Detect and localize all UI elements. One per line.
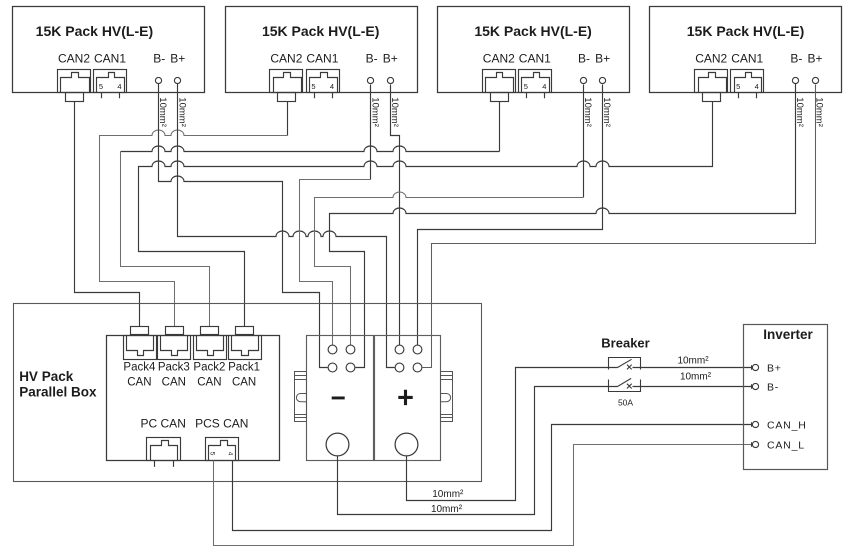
minus sign [332,397,345,400]
HV Pack Parallel Box outer enclosure [14,304,482,482]
svg-text:5: 5 [99,82,103,91]
HV Pack Parallel Box label [19,369,97,400]
minus busbar mounting tab [295,372,307,422]
wire pack3 B+ to plus busbar upper-right terminal [418,85,603,346]
inverter box [744,325,828,470]
svg-text:B-: B- [767,382,779,394]
pack BT4 labels [687,23,823,66]
wire pack3 CAN2 vertical [499,102,501,152]
wire pack2 CAN2 to Pack3 CAN port [100,130,288,327]
wire PCS CAN pin4 to inverter CAN_H [233,425,753,531]
parallel box PCS CAN connector pins 5 4 [206,438,239,461]
svg-text:50A: 50A [618,398,633,408]
svg-text:4: 4 [117,82,121,91]
inverter terminal CAN_L [752,440,805,452]
wire pack1 CAN2 to Pack4 CAN port [75,102,140,327]
wire pack2 B- to minus busbar upper-left terminal [300,180,371,346]
pack BT2 terminal B- [367,77,373,83]
svg-text:CAN1: CAN1 [519,52,551,66]
parallel box Pack4 CAN label [123,361,156,388]
pack BT3 labels [474,23,610,66]
parallel box Pack1 CAN label [228,361,260,388]
svg-text:CAN: CAN [127,377,151,389]
pack BT4 CAN2 connector J4A [695,70,728,102]
inverter terminal CAN_H [752,420,807,432]
minus busbar terminal 2 [346,345,355,354]
wire pack3 CAN2 to Pack2 CAN port [121,152,210,327]
svg-text:10mm²: 10mm² [680,372,712,383]
pack BT2 wire size labels 10mm2 [369,97,399,127]
svg-text:B-: B- [366,52,378,66]
parallel box Pack2 CAN label [193,361,225,388]
wire pack2 CAN2 vertical [287,102,289,136]
parallel box Pack2 CAN connector [194,327,227,360]
svg-text:Pack4: Pack4 [123,361,156,373]
wire pack2 B- vertical [370,85,372,180]
wire pack4 B- to minus busbar lower-right terminal [330,84,796,368]
plus busbar block [375,336,441,461]
svg-text:Breaker: Breaker [601,336,649,351]
minus busbar terminal 4 [346,363,355,372]
wire pack3 CAN2 bus segment [121,146,500,152]
svg-text:15K Pack HV(L-E): 15K Pack HV(L-E) [36,23,153,39]
svg-text:4: 4 [542,82,546,91]
wire pack4 B+ to plus busbar lower-right terminal [423,85,816,368]
battery pack BT2 box [226,7,418,93]
svg-text:CAN1: CAN1 [306,52,338,66]
pack BT3 CAN1 connector J3B pins 5 4 [519,70,552,99]
pack BT3 CAN2 connector J3A [483,70,516,102]
parallel box PC CAN connector [147,438,181,467]
svg-text:CAN1: CAN1 [94,52,126,66]
pack BT1 CAN2 connector J1A [58,70,91,102]
plus busbar terminal 3 [395,363,404,372]
svg-text:4: 4 [755,82,759,91]
pack BT3 terminal B+ [599,77,605,83]
svg-text:Pack3: Pack3 [158,361,190,373]
svg-text:CAN2: CAN2 [270,52,302,66]
svg-text:CAN1: CAN1 [731,52,763,66]
pack BT1 wire size labels 10mm2 [157,97,187,127]
svg-text:B-: B- [578,52,590,66]
svg-text:Inverter: Inverter [763,327,813,342]
minus busbar output stud [326,433,349,456]
svg-text:B+: B+ [170,52,185,66]
wire pack4 CAN2 to Pack1 CAN port [139,102,713,327]
parallel box Pack3 CAN label [158,361,190,388]
svg-text:15K Pack HV(L-E): 15K Pack HV(L-E) [262,23,379,39]
pack BT3 terminal B- [580,77,586,83]
svg-text:B+: B+ [807,52,822,66]
pack BT4 terminal B- [792,77,798,83]
svg-text:CAN2: CAN2 [483,52,515,66]
svg-text:B-: B- [153,52,165,66]
svg-text:CAN2: CAN2 [58,52,90,66]
svg-text:CAN: CAN [162,377,186,389]
pack BT4 CAN1 connector J4B pins 5 4 [731,70,764,99]
pack BT2 CAN2 connector J2A [270,70,303,102]
svg-text:5: 5 [311,82,315,91]
svg-text:PCS CAN: PCS CAN [195,416,248,430]
svg-text:10mm²: 10mm² [677,355,709,366]
svg-text:CAN: CAN [197,377,221,389]
svg-text:B-: B- [790,52,802,66]
parallel box CAN hub module [107,336,280,461]
pack BT1 terminal B+ [174,77,180,83]
parallel box Pack4 CAN connector [124,327,157,360]
breaker Q1 two-pole switch symbol [609,358,641,392]
minus busbar terminal 3 [328,363,337,372]
wire pack1 B+ to plus busbar lower-left terminal [178,84,395,368]
svg-text:5: 5 [524,82,528,91]
wire pack1 B- to minus busbar lower-left terminal [159,84,328,368]
svg-text:4: 4 [227,452,234,456]
pack BT4 terminal B+ [812,77,818,83]
pack BT1 CAN1 connector J1B pins 5 4 [94,70,127,99]
battery pack BT3 box [438,7,630,93]
svg-text:B+: B+ [383,52,398,66]
svg-text:CAN: CAN [232,377,256,389]
svg-text:HV Pack: HV Pack [19,369,74,384]
wire pack3 B- to minus busbar upper-right terminal [315,192,584,346]
plus busbar terminal 2 [413,345,422,354]
battery pack BT1 box [13,7,205,93]
svg-text:CAN_L: CAN_L [767,440,805,452]
wire pack3 B- vertical [583,85,585,198]
plus busbar terminal 4 [413,363,422,372]
wire minus busbar to breaker to inverter B- [338,387,753,515]
wire pack2 B+ to plus busbar upper-left terminal [391,85,400,346]
svg-text:4: 4 [330,82,334,91]
plus sign [398,390,412,405]
wire PCS CAN pin5 to inverter CAN_L [214,445,753,546]
svg-text:15K Pack HV(L-E): 15K Pack HV(L-E) [474,23,591,39]
minus busbar block [307,336,374,461]
parallel box Pack1 CAN connector [229,327,262,360]
battery pack BT4 box [650,7,842,93]
svg-text:Pack2: Pack2 [193,361,225,373]
svg-text:Pack1: Pack1 [228,361,260,373]
svg-text:10mm²: 10mm² [431,504,463,515]
svg-text:PC CAN: PC CAN [141,416,186,430]
pack BT2 terminal B+ [387,77,393,83]
pack BT1 labels [36,23,186,66]
svg-text:5: 5 [736,82,740,91]
pack BT1 terminal B- [155,77,161,83]
wire plus busbar to breaker to inverter B+ [407,368,753,501]
svg-text:15K Pack HV(L-E): 15K Pack HV(L-E) [687,23,804,39]
plus busbar mounting tab [441,372,453,422]
plus busbar terminal 1 [395,345,404,354]
svg-text:Parallel Box: Parallel Box [19,385,97,400]
pack BT3 wire size labels 10mm2 [582,97,612,127]
svg-text:B+: B+ [595,52,610,66]
svg-text:CAN2: CAN2 [695,52,727,66]
pack BT2 labels [262,23,398,66]
plus busbar output stud [395,433,418,456]
inverter terminal B+ [752,363,782,375]
parallel box Pack3 CAN connector [158,327,191,360]
pack BT2 CAN1 connector J2B pins 5 4 [307,70,340,99]
svg-text:CAN_H: CAN_H [767,420,807,432]
svg-text:B+: B+ [767,363,782,375]
pack BT4 wire size labels 10mm2 [794,97,824,127]
inverter terminal B- [752,382,780,394]
minus busbar terminal 1 [328,345,337,354]
svg-text:10mm²: 10mm² [432,489,464,500]
svg-text:5: 5 [208,452,215,456]
